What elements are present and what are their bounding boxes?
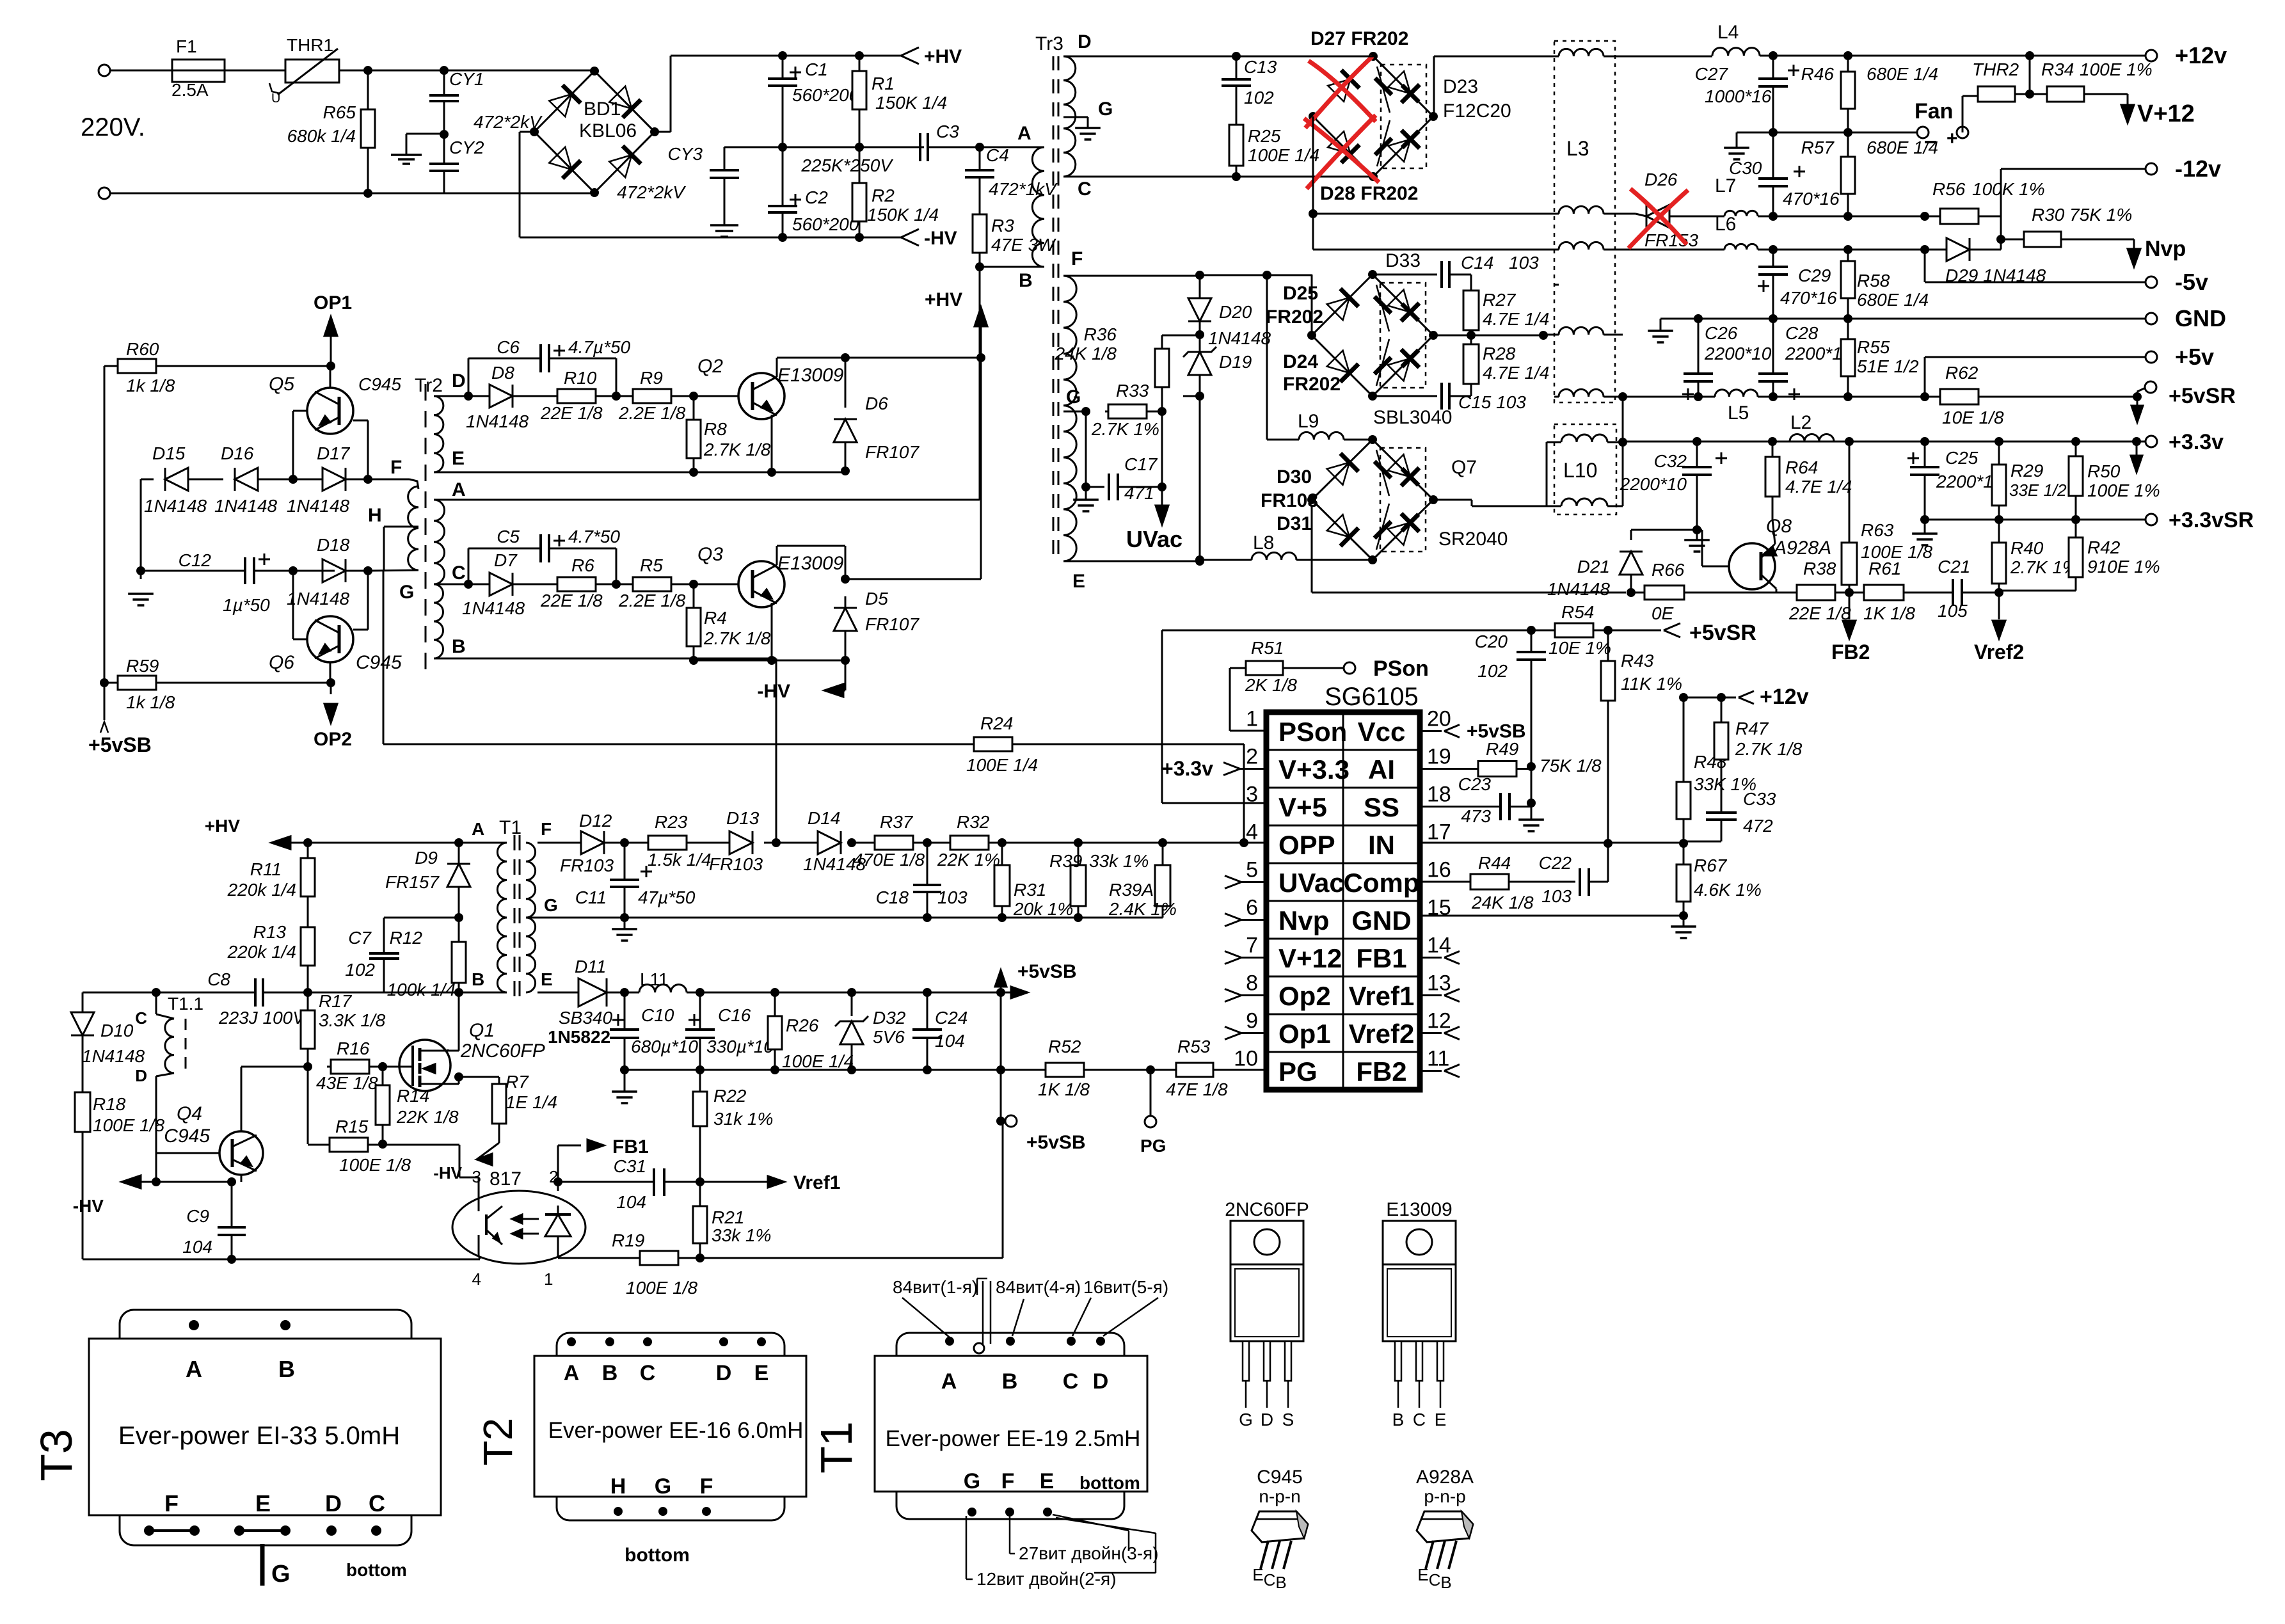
- svg-text:C18: C18: [876, 888, 909, 907]
- svg-text:1N4148: 1N4148: [466, 411, 529, 431]
- svg-text:C: C: [369, 1490, 385, 1517]
- svg-text:10E 1/8: 10E 1/8: [1942, 408, 2004, 427]
- svg-text:1.5k 1/4: 1.5k 1/4: [648, 850, 712, 870]
- svg-text:SR2040: SR2040: [1438, 529, 1508, 550]
- svg-text:PSon: PSon: [1373, 657, 1429, 681]
- svg-text:R2: R2: [872, 186, 895, 205]
- svg-text:R34: R34: [2041, 60, 2074, 79]
- svg-text:SS: SS: [1364, 792, 1399, 822]
- svg-text:C945: C945: [358, 374, 401, 394]
- svg-text:SG6105: SG6105: [1325, 683, 1419, 711]
- svg-text:E: E: [754, 1361, 769, 1385]
- svg-text:F: F: [541, 819, 552, 839]
- svg-text:9: 9: [1246, 1009, 1258, 1033]
- svg-text:Q1: Q1: [469, 1020, 495, 1041]
- svg-text:R38: R38: [1803, 559, 1836, 578]
- svg-text:100E 1/8: 100E 1/8: [93, 1115, 165, 1135]
- svg-text:C10: C10: [641, 1005, 674, 1025]
- svg-text:D24: D24: [1283, 351, 1318, 372]
- svg-text:T1.1: T1.1: [168, 994, 203, 1014]
- svg-text:R47: R47: [1735, 719, 1769, 738]
- svg-text:2K 1/8: 2K 1/8: [1245, 675, 1297, 695]
- svg-text:A928A: A928A: [1416, 1467, 1474, 1488]
- svg-text:L10: L10: [1563, 459, 1597, 482]
- svg-text:104: 104: [182, 1237, 212, 1257]
- svg-text:4: 4: [1246, 820, 1258, 845]
- svg-text:L2: L2: [1790, 412, 1811, 433]
- svg-text:A: A: [564, 1361, 580, 1385]
- svg-text:1: 1: [1246, 707, 1258, 731]
- svg-text:2.7K 1%: 2.7K 1%: [1091, 419, 1159, 439]
- svg-text:100E 1%: 100E 1%: [2080, 60, 2153, 79]
- svg-text:10E 1%: 10E 1%: [1549, 638, 1611, 658]
- svg-text:220V.: 220V.: [81, 113, 145, 141]
- svg-text:+: +: [1947, 128, 1958, 149]
- svg-text:R8: R8: [704, 419, 727, 439]
- svg-text:D19: D19: [1219, 352, 1252, 372]
- svg-text:R46: R46: [1801, 64, 1835, 84]
- svg-text:E13009: E13009: [1386, 1199, 1452, 1220]
- svg-text:+5vSB: +5vSB: [1017, 961, 1077, 982]
- svg-text:4.7µ*50: 4.7µ*50: [568, 337, 631, 357]
- svg-text:330µ*10: 330µ*10: [706, 1037, 774, 1056]
- svg-text:C2: C2: [805, 187, 828, 207]
- svg-text:V+12: V+12: [2137, 100, 2195, 127]
- svg-text:R57: R57: [1801, 138, 1835, 157]
- svg-text:R60: R60: [126, 339, 159, 359]
- svg-text:3: 3: [472, 1167, 481, 1186]
- svg-text:100E 1/8: 100E 1/8: [339, 1155, 411, 1175]
- svg-text:FB2: FB2: [1831, 641, 1870, 664]
- svg-text:33k 1%: 33k 1%: [712, 1225, 771, 1245]
- svg-text:UVac: UVac: [1278, 868, 1344, 898]
- svg-text:F: F: [164, 1490, 179, 1517]
- svg-text:43E 1/8: 43E 1/8: [316, 1073, 378, 1093]
- svg-text:100E 1/4: 100E 1/4: [1248, 145, 1319, 165]
- svg-text:22E 1/8: 22E 1/8: [540, 591, 603, 610]
- svg-text:R23: R23: [655, 812, 688, 832]
- svg-text:C16: C16: [718, 1005, 751, 1025]
- svg-text:103: 103: [937, 888, 967, 907]
- svg-text:R4: R4: [704, 608, 727, 628]
- svg-text:+5vSR: +5vSR: [2169, 384, 2236, 408]
- svg-text:8: 8: [1246, 971, 1258, 996]
- svg-text:R18: R18: [93, 1094, 126, 1114]
- svg-text:16вит(5-я): 16вит(5-я): [1083, 1277, 1168, 1297]
- svg-text:680E 1/4: 680E 1/4: [1867, 138, 1938, 157]
- svg-text:C12: C12: [179, 550, 212, 570]
- svg-text:H: H: [368, 505, 382, 526]
- svg-text:22K 1/8: 22K 1/8: [396, 1107, 459, 1127]
- svg-text:2NC60FP: 2NC60FP: [460, 1040, 545, 1062]
- svg-text:L3: L3: [1566, 137, 1589, 160]
- svg-text:D7: D7: [494, 550, 518, 570]
- svg-text:C945: C945: [164, 1126, 210, 1147]
- svg-text:R5: R5: [640, 555, 663, 575]
- svg-text:IN: IN: [1368, 830, 1395, 860]
- svg-text:R56: R56: [1932, 179, 1966, 199]
- svg-text:+12v: +12v: [2175, 42, 2227, 68]
- svg-text:C945: C945: [356, 652, 402, 673]
- svg-text:2.2E 1/8: 2.2E 1/8: [618, 403, 686, 423]
- svg-text:R37: R37: [880, 812, 914, 832]
- svg-text:472: 472: [1743, 816, 1773, 836]
- svg-text:C11: C11: [575, 888, 607, 907]
- svg-text:R52: R52: [1048, 1037, 1081, 1056]
- svg-text:B: B: [602, 1361, 618, 1385]
- svg-text:1N4148: 1N4148: [287, 589, 350, 609]
- svg-text:F: F: [1071, 248, 1083, 269]
- svg-text:220k 1/4: 220k 1/4: [227, 880, 296, 900]
- svg-text:Q6: Q6: [269, 652, 294, 673]
- svg-text:+5vSB: +5vSB: [1026, 1132, 1086, 1153]
- svg-text:FR103: FR103: [560, 856, 614, 875]
- svg-text:THR1: THR1: [287, 35, 333, 55]
- svg-text:V+12: V+12: [1278, 943, 1342, 973]
- svg-text:FR107: FR107: [865, 442, 920, 462]
- svg-text:E: E: [1435, 1410, 1447, 1429]
- svg-text:AI: AI: [1368, 754, 1395, 784]
- svg-text:THR2: THR2: [1972, 60, 2019, 79]
- svg-text:Op2: Op2: [1278, 981, 1331, 1011]
- svg-text:E: E: [541, 969, 553, 989]
- svg-text:R6: R6: [571, 555, 594, 575]
- svg-text:C1: C1: [805, 60, 828, 79]
- svg-text:225K*250V: 225K*250V: [800, 155, 893, 175]
- svg-text:R55: R55: [1857, 337, 1890, 357]
- svg-text:+5vSB: +5vSB: [88, 733, 152, 756]
- svg-text:FR202: FR202: [1283, 374, 1341, 395]
- svg-text:KBL06: KBL06: [579, 120, 637, 141]
- svg-text:C17: C17: [1124, 454, 1158, 474]
- svg-text:100k 1/4: 100k 1/4: [387, 980, 456, 999]
- svg-text:10: 10: [1234, 1047, 1258, 1071]
- svg-text:150K 1/4: 150K 1/4: [867, 205, 939, 225]
- svg-text:Ever-power EE-16 6.0mH: Ever-power EE-16 6.0mH: [548, 1418, 804, 1443]
- svg-text:C8: C8: [207, 969, 230, 989]
- svg-text:R49: R49: [1486, 739, 1518, 759]
- svg-text:C: C: [1429, 1570, 1441, 1589]
- svg-text:FB2: FB2: [1356, 1056, 1406, 1087]
- svg-text:C21: C21: [1938, 557, 1970, 577]
- svg-text:103: 103: [1509, 253, 1539, 273]
- svg-text:D6: D6: [865, 394, 888, 413]
- svg-text:D12: D12: [579, 811, 612, 831]
- svg-text:C9: C9: [186, 1206, 209, 1226]
- svg-text:FR103: FR103: [709, 854, 763, 874]
- svg-text:G: G: [399, 582, 414, 603]
- svg-text:R65: R65: [323, 102, 356, 122]
- svg-text:Vref2: Vref2: [1974, 641, 2024, 664]
- svg-text:FR157: FR157: [385, 872, 440, 892]
- svg-text:104: 104: [935, 1031, 965, 1051]
- svg-text:S: S: [1282, 1410, 1294, 1429]
- svg-text:1000*16: 1000*16: [1705, 86, 1772, 106]
- svg-text:R3: R3: [991, 216, 1014, 235]
- svg-text:1K 1/8: 1K 1/8: [1863, 603, 1915, 623]
- svg-text:472*1kV: 472*1kV: [989, 179, 1058, 199]
- svg-text:A928A: A928A: [1772, 537, 1831, 559]
- svg-text:D28 FR202: D28 FR202: [1320, 183, 1418, 204]
- svg-text:R64: R64: [1785, 458, 1818, 477]
- svg-text:Tr3: Tr3: [1035, 33, 1063, 54]
- svg-text:D16: D16: [221, 443, 254, 463]
- svg-text:A: A: [941, 1369, 957, 1394]
- svg-text:D32: D32: [873, 1008, 906, 1028]
- svg-text:17: 17: [1427, 820, 1451, 845]
- svg-text:680k 1/4: 680k 1/4: [287, 126, 356, 146]
- svg-text:E: E: [1417, 1565, 1428, 1584]
- svg-text:C: C: [640, 1361, 656, 1385]
- svg-text:1k 1/8: 1k 1/8: [126, 692, 175, 712]
- svg-text:4.7E 1/4: 4.7E 1/4: [1483, 309, 1549, 329]
- svg-text:D31: D31: [1277, 513, 1312, 534]
- svg-text:R42: R42: [2087, 537, 2121, 557]
- svg-text:4.7E 1/4: 4.7E 1/4: [1785, 477, 1852, 497]
- svg-text:T1: T1: [499, 817, 521, 838]
- svg-text:+3.3vSR: +3.3vSR: [2169, 508, 2254, 532]
- svg-text:84вит(4-я): 84вит(4-я): [996, 1277, 1081, 1297]
- svg-text:G: G: [1066, 386, 1081, 408]
- svg-text:2NC60FP: 2NC60FP: [1225, 1199, 1309, 1220]
- svg-text:19: 19: [1427, 745, 1451, 769]
- svg-text:D15: D15: [152, 443, 186, 463]
- svg-text:1k 1/8: 1k 1/8: [126, 376, 175, 395]
- svg-text:C13: C13: [1244, 57, 1277, 77]
- svg-text:C: C: [1264, 1570, 1276, 1589]
- svg-text:Q4: Q4: [177, 1103, 202, 1124]
- svg-text:7: 7: [1246, 934, 1258, 958]
- svg-text:D20: D20: [1219, 302, 1252, 322]
- svg-text:20: 20: [1427, 707, 1451, 731]
- svg-text:4.7*50: 4.7*50: [568, 527, 620, 546]
- svg-text:C15 103: C15 103: [1458, 392, 1526, 412]
- svg-text:A: A: [1017, 123, 1031, 144]
- svg-text:+5v: +5v: [2175, 344, 2214, 370]
- svg-text:560*200: 560*200: [792, 85, 859, 105]
- svg-text:1N4148: 1N4148: [144, 496, 207, 516]
- svg-text:105: 105: [1938, 601, 1968, 621]
- svg-text:1N4148: 1N4148: [462, 598, 525, 618]
- svg-text:L9: L9: [1298, 411, 1319, 432]
- svg-text:F12C20: F12C20: [1443, 100, 1511, 122]
- svg-text:FR202: FR202: [1266, 306, 1323, 328]
- svg-text:B: B: [1440, 1573, 1451, 1592]
- svg-text:473: 473: [1461, 806, 1491, 826]
- svg-text:47µ*50: 47µ*50: [638, 888, 696, 907]
- svg-text:G: G: [271, 1561, 291, 1588]
- svg-text:3.3K 1/8: 3.3K 1/8: [319, 1010, 386, 1030]
- svg-text:4.6K 1%: 4.6K 1%: [1694, 880, 1762, 900]
- svg-text:C4: C4: [986, 145, 1009, 165]
- svg-text:E: E: [1252, 1565, 1263, 1584]
- svg-text:R66: R66: [1652, 560, 1685, 580]
- svg-text:G: G: [544, 895, 558, 915]
- svg-text:+12v: +12v: [1760, 685, 1809, 709]
- svg-text:D17: D17: [317, 443, 351, 463]
- svg-text:C29: C29: [1798, 266, 1831, 285]
- svg-text:27вит двойн(3-я): 27вит двойн(3-я): [1019, 1543, 1159, 1563]
- svg-text:910E 1%: 910E 1%: [2087, 557, 2160, 577]
- svg-text:Ever-power EI-33 5.0mH: Ever-power EI-33 5.0mH: [118, 1422, 400, 1450]
- svg-text:p-n-p: p-n-p: [1424, 1486, 1465, 1506]
- svg-text:R11: R11: [250, 859, 282, 879]
- svg-text:R59: R59: [126, 656, 159, 676]
- svg-text:1N4148: 1N4148: [1547, 579, 1611, 599]
- svg-text:5V6: 5V6: [873, 1027, 905, 1047]
- svg-text:R24: R24: [980, 713, 1013, 733]
- svg-text:L5: L5: [1728, 402, 1749, 424]
- svg-text:R28: R28: [1483, 344, 1516, 363]
- svg-text:Tr2: Tr2: [415, 375, 443, 396]
- svg-text:12вит двойн(2-я): 12вит двойн(2-я): [976, 1569, 1117, 1589]
- svg-text:U: U: [271, 92, 280, 106]
- svg-text:Nvp: Nvp: [2145, 237, 2186, 261]
- svg-text:470E 1/8: 470E 1/8: [853, 850, 925, 870]
- svg-text:T1: T1: [811, 1421, 861, 1474]
- svg-text:B: B: [452, 636, 466, 657]
- svg-text:CY3: CY3: [668, 144, 703, 164]
- svg-text:C26: C26: [1705, 323, 1738, 343]
- svg-text:47E 1/8: 47E 1/8: [1166, 1079, 1228, 1099]
- svg-text:C: C: [135, 1008, 147, 1028]
- svg-text:D33: D33: [1385, 250, 1421, 271]
- svg-text:1: 1: [544, 1270, 553, 1289]
- svg-text:R12: R12: [390, 928, 423, 948]
- svg-text:2: 2: [1246, 745, 1258, 769]
- svg-text:-5v: -5v: [2175, 269, 2208, 295]
- svg-text:R30 75K 1%: R30 75K 1%: [2032, 205, 2132, 225]
- svg-text:B: B: [1275, 1573, 1286, 1592]
- svg-text:2.7K 1/8: 2.7K 1/8: [1735, 739, 1803, 759]
- svg-text:Vcc: Vcc: [1358, 717, 1406, 747]
- svg-text:13: 13: [1427, 971, 1451, 996]
- svg-text:C: C: [452, 562, 466, 584]
- svg-text:Op1: Op1: [1278, 1019, 1331, 1049]
- svg-text:R50: R50: [2087, 461, 2121, 481]
- svg-text:PG: PG: [1140, 1136, 1166, 1156]
- svg-text:D8: D8: [491, 363, 514, 383]
- svg-text:+5vSR: +5vSR: [1689, 621, 1756, 645]
- svg-text:C5: C5: [497, 527, 520, 546]
- svg-text:G: G: [655, 1474, 671, 1499]
- svg-text:Q7: Q7: [1451, 457, 1477, 478]
- svg-text:C: C: [1063, 1369, 1079, 1394]
- svg-text:E: E: [1072, 571, 1085, 592]
- svg-text:OP1: OP1: [314, 292, 352, 314]
- svg-text:D21: D21: [1577, 557, 1610, 577]
- svg-text:R62: R62: [1945, 363, 1978, 383]
- svg-text:D30: D30: [1277, 466, 1312, 488]
- svg-text:D25: D25: [1283, 283, 1318, 304]
- svg-text:Nvp: Nvp: [1278, 905, 1329, 935]
- svg-text:bottom: bottom: [1079, 1473, 1140, 1493]
- svg-text:Q3: Q3: [697, 544, 723, 565]
- svg-text:C20: C20: [1475, 632, 1508, 651]
- svg-text:C: C: [1413, 1410, 1426, 1429]
- svg-text:-HV: -HV: [73, 1196, 104, 1216]
- svg-text:R1: R1: [872, 74, 895, 93]
- svg-text:+HV: +HV: [924, 46, 962, 67]
- svg-text:F: F: [1001, 1469, 1015, 1493]
- svg-text:C27: C27: [1695, 64, 1729, 84]
- svg-text:R13: R13: [253, 922, 287, 942]
- svg-text:FB1: FB1: [612, 1136, 649, 1158]
- svg-text:-HV: -HV: [433, 1163, 462, 1182]
- svg-text:L6: L6: [1715, 214, 1736, 235]
- svg-text:E13009: E13009: [777, 365, 844, 386]
- svg-text:GND: GND: [2175, 305, 2226, 331]
- svg-text:R9: R9: [640, 368, 663, 388]
- svg-text:B: B: [1392, 1410, 1405, 1429]
- svg-text:R29: R29: [2010, 461, 2043, 481]
- svg-text:CY2: CY2: [449, 138, 484, 157]
- svg-text:B: B: [278, 1356, 295, 1382]
- svg-text:F: F: [390, 457, 402, 478]
- svg-text:560*200: 560*200: [792, 214, 859, 234]
- svg-text:33E 1/2: 33E 1/2: [2009, 481, 2067, 500]
- svg-text:R53: R53: [1177, 1037, 1211, 1056]
- svg-text:OP2: OP2: [314, 729, 352, 750]
- svg-text:471: 471: [1124, 483, 1154, 503]
- svg-text:FB1: FB1: [1356, 943, 1406, 973]
- svg-text:GND: GND: [1351, 905, 1411, 935]
- svg-text:22K 1%: 22K 1%: [937, 850, 1000, 870]
- svg-text:4: 4: [472, 1270, 481, 1289]
- svg-text:FR103: FR103: [1261, 490, 1318, 511]
- svg-text:75K 1/8: 75K 1/8: [1540, 756, 1602, 776]
- svg-text:18: 18: [1427, 783, 1451, 807]
- svg-text:E: E: [1040, 1469, 1055, 1493]
- svg-text:C: C: [1078, 179, 1092, 200]
- svg-text:R32: R32: [957, 812, 990, 832]
- svg-text:Comp: Comp: [1344, 868, 1420, 898]
- svg-text:D: D: [325, 1490, 342, 1517]
- svg-text:100E 1/8: 100E 1/8: [626, 1278, 698, 1298]
- svg-text:D: D: [135, 1066, 147, 1085]
- svg-text:1N5822: 1N5822: [548, 1027, 610, 1047]
- svg-text:2.2E 1/8: 2.2E 1/8: [618, 591, 686, 610]
- svg-text:C32: C32: [1654, 451, 1687, 471]
- svg-text:B: B: [472, 969, 484, 989]
- svg-text:C14: C14: [1461, 253, 1493, 273]
- svg-text:Vref2: Vref2: [1349, 1019, 1415, 1049]
- svg-text:102: 102: [1244, 88, 1274, 107]
- svg-text:L8: L8: [1253, 532, 1274, 553]
- svg-text:-HV: -HV: [924, 228, 957, 249]
- svg-text:R51: R51: [1251, 638, 1284, 658]
- svg-text:R27: R27: [1483, 290, 1517, 310]
- svg-text:Vref1: Vref1: [793, 1172, 840, 1193]
- svg-text:BD1: BD1: [584, 99, 621, 120]
- svg-text:2200*10: 2200*10: [1620, 474, 1687, 494]
- svg-text:R39A: R39A: [1109, 880, 1154, 900]
- svg-text:24K 1/8: 24K 1/8: [1054, 344, 1117, 363]
- svg-text:D: D: [452, 370, 466, 392]
- svg-text:100E 1%: 100E 1%: [2087, 481, 2160, 500]
- svg-text:102: 102: [1477, 661, 1508, 681]
- svg-text:817: 817: [490, 1168, 521, 1190]
- svg-text:R19: R19: [612, 1230, 644, 1250]
- svg-text:4.7E 1/4: 4.7E 1/4: [1483, 363, 1549, 383]
- svg-text:0E: 0E: [1652, 603, 1674, 623]
- svg-text:R31: R31: [1014, 880, 1046, 900]
- svg-text:V+3.3: V+3.3: [1278, 754, 1350, 784]
- svg-text:D23: D23: [1443, 76, 1478, 97]
- svg-text:+HV: +HV: [925, 289, 962, 310]
- svg-text:L7: L7: [1715, 175, 1736, 196]
- svg-text:1N4148: 1N4148: [82, 1046, 145, 1066]
